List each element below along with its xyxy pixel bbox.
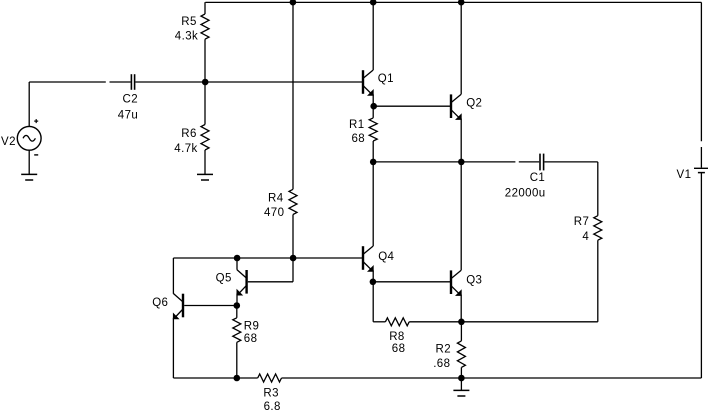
resistor R7 [594,216,602,241]
svg-text:22000u: 22000u [505,188,546,200]
resistor R2 [457,341,465,368]
wire R4 top lead [292,2,294,189]
wire R7 bottom lead [597,240,599,322]
label R6 value [174,143,197,155]
label V1 [677,169,692,181]
wire out rail [373,161,515,163]
node Q1 emitter [370,103,377,110]
svg-text:Q4: Q4 [378,251,394,263]
wire ground lead [460,378,462,390]
wire R8 right lead [409,321,461,323]
wire V2 bottom lead [28,150,30,174]
svg-text:R9: R9 [244,320,260,332]
label R1 value [352,133,366,145]
label R7 value [582,231,589,243]
svg-text:470: 470 [264,207,284,219]
transistor Q6 [173,294,183,320]
ground output [453,390,469,396]
capacitor C2 [131,74,205,90]
wire Q5 base [248,258,293,282]
ground R6 [197,174,213,180]
label C1 [530,172,546,184]
wire R1 bottom lead [372,141,374,162]
node input [202,79,209,86]
wire R1 top lead [372,106,374,118]
wire R2 bottom lead [460,367,462,378]
svg-text:Q1: Q1 [378,73,394,85]
wire R5 top lead [204,2,206,14]
label R9 value [244,333,258,345]
wire V2 top lead [28,82,30,126]
node Q4 emitter [370,279,377,286]
node Q1 collector [370,0,377,6]
label Q6 [152,297,168,309]
svg-text:4: 4 [582,231,589,243]
node Q3 emitter [458,319,465,326]
label Q2 [466,98,482,110]
wire Q5 emitter [236,294,238,306]
label R8 [389,331,405,343]
resistor R6 [201,125,209,151]
svg-text:R2: R2 [436,343,452,355]
label R4 [268,193,284,205]
transistor Q1 [363,70,374,96]
wire R5 bottom lead [204,39,206,82]
wire R4 bottom lead [292,215,294,259]
node VAS [290,255,297,262]
wire mid rail [173,257,362,259]
svg-text:R3: R3 [263,387,279,399]
svg-text:Q3: Q3 [466,274,482,286]
label V2 [1,136,16,148]
label R6 [181,128,197,140]
wire Q4-R8 column [372,282,374,322]
label Q1 [378,73,394,85]
svg-text:Q6: Q6 [152,297,168,309]
resistor R3 [258,374,282,382]
svg-text:Q2: Q2 [466,98,482,110]
svg-text:R8: R8 [389,331,405,343]
node out-left [370,159,377,166]
wire Q6 emitter lead [172,318,174,378]
resistor R9 [233,318,241,343]
svg-text:R5: R5 [181,16,197,28]
wire C1 left lead [519,161,539,163]
ground V2 [21,174,37,180]
node out-mid [458,159,465,166]
wire R7 top lead [597,162,599,216]
wire R6 top lead [204,82,206,125]
wire R2 top lead [460,322,462,341]
svg-text:C2: C2 [123,93,139,105]
label R9 [244,320,260,332]
wire input rail 2 [110,81,131,83]
label R4 value [264,207,284,219]
wire Q4 collector [372,162,374,246]
transistor Q4 [363,246,374,272]
wire bottom rail right [282,377,702,379]
svg-text:68: 68 [244,333,258,345]
transistor Q3 [451,270,462,296]
svg-text:.68: .68 [433,358,450,370]
node Q5 collector [234,255,241,262]
resistor R1 [369,118,377,141]
wire base rail [205,81,362,83]
label C2 [123,93,139,105]
svg-text:R4: R4 [268,193,284,205]
node R2 bottom [458,375,465,382]
transistor Q2 [451,94,462,120]
wire input rail [29,81,106,83]
source V2 circle [17,126,41,150]
label R8 value [392,343,406,355]
label Q3 [466,274,482,286]
svg-text:4.7k: 4.7k [174,143,197,155]
svg-text:4.3k: 4.3k [175,30,198,42]
svg-text:68: 68 [352,133,366,145]
wire Q4 emitter [372,270,374,281]
node Q5 emitter [234,302,241,309]
node Q2 collector [458,0,465,6]
wire Q1-Q2 [373,105,450,107]
label R3 value [264,401,281,411]
wire R9 bottom lead [236,342,238,378]
label R7 [574,216,590,228]
wire R9 top lead [236,306,238,318]
svg-text:47u: 47u [118,110,138,122]
wire R8 left lead [373,321,385,323]
wire Q3 emitter [460,295,462,322]
wire V1 lead [700,147,702,168]
wire left column upper [172,258,174,294]
label R1 [349,119,365,131]
source V2 plus [34,119,38,123]
svg-text:6.8: 6.8 [264,401,281,411]
svg-text:V1: V1 [677,169,692,181]
transistor Q5 [237,270,247,296]
label C2 value [118,110,138,122]
svg-text:C1: C1 [530,172,546,184]
svg-text:Q5: Q5 [216,272,232,284]
label Q4 [378,251,394,263]
label R5 [181,16,197,28]
label R2 value [433,358,450,370]
svg-text:V2: V2 [1,136,16,148]
wire Q3 collector [460,162,462,270]
wire Q1 emitter [372,94,374,106]
wire Q2 collector [460,2,462,94]
wire Q6 base [184,305,237,307]
label Q5 [216,272,232,284]
svg-text:R6: R6 [181,128,197,140]
source V2 minus [34,154,38,156]
wire Q4-Q3 [373,281,450,283]
capacitor C1 [540,154,598,171]
wire Q2 emitter [460,119,462,162]
resistor R4 [289,189,297,214]
svg-text:R7: R7 [574,216,590,228]
wire Q1 collector [372,2,374,70]
wire bottom rail left [173,377,257,379]
label R3 [263,387,279,399]
wire R6 bottom lead [204,150,206,174]
label R2 [436,343,452,355]
wire top rail [205,1,701,3]
label C1 value [505,188,546,200]
battery V1 [694,168,708,172]
wire Q5 collector [236,258,238,270]
wire feedback rail [461,321,597,323]
source V2 sine [23,135,35,141]
node R4 top [290,0,297,6]
svg-text:68: 68 [392,343,406,355]
resistor R8 [385,318,409,326]
node R9 bottom [234,375,241,382]
resistor R5 [201,14,209,39]
wire V1 column upper [700,2,702,141]
wire V1 column lower [700,173,702,378]
svg-text:R1: R1 [349,119,365,131]
label R5 value [175,30,198,42]
